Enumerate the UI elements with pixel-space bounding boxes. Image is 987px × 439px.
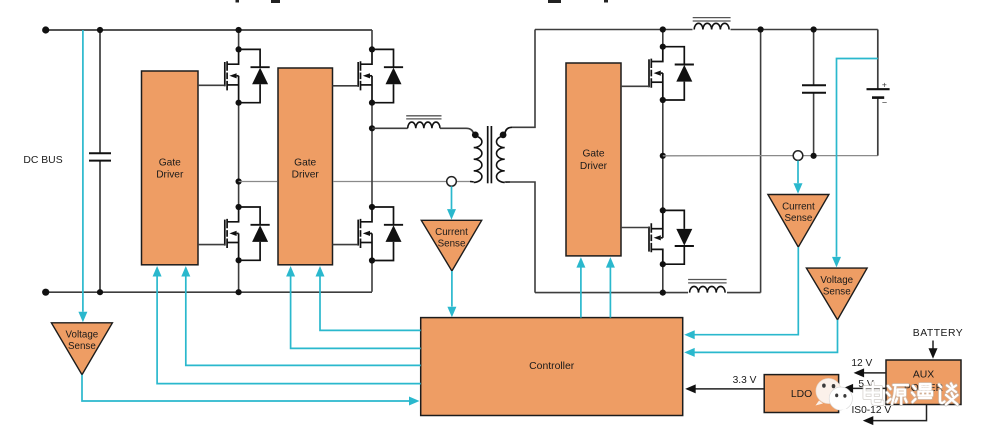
wire CT2 to CS2 (cyan) — [794, 161, 803, 194]
transistor Q3 high-side with body diode — [333, 46, 404, 105]
current sense block CS2 — [768, 195, 829, 248]
svg-text:AUX: AUX — [913, 370, 934, 381]
wire AUX ISO-12V output — [863, 405, 927, 426]
wire leg2 vertical segments — [371, 30, 373, 292]
regulator LDO box — [764, 375, 838, 413]
svg-text:LDO: LDO — [791, 389, 812, 400]
node leg1 midpoint — [236, 178, 242, 184]
wire VS2 to controller (cyan) — [684, 320, 837, 357]
svg-text:BATTERY: BATTERY — [913, 328, 963, 339]
current probe CT1 (primary) — [447, 177, 457, 187]
transformer T1 core — [488, 126, 492, 183]
svg-text:Sense: Sense — [438, 239, 466, 250]
wire output return (leg mid to battery) — [663, 155, 878, 157]
battery BT1 — [867, 30, 890, 156]
svg-text:Gate: Gate — [582, 149, 604, 160]
wire controller to U1 pwm A (cyan) — [181, 266, 420, 365]
wire CS1 to controller (cyan) — [447, 271, 456, 317]
svg-text:Driver: Driver — [580, 161, 608, 172]
svg-text:Current: Current — [782, 201, 815, 212]
label IS0-12 V — [851, 405, 891, 416]
label 5 V — [858, 379, 873, 390]
wire controller to U2 pwm B (cyan) — [286, 266, 421, 348]
transformer T1 secondary dot — [500, 132, 507, 139]
wire top rail secondary — [535, 29, 878, 31]
svg-text:IS0-12 V: IS0-12 V — [851, 405, 891, 416]
inductor L3 output bottom — [688, 280, 727, 299]
wire primary return (leg1 mid to transformer) — [239, 181, 470, 183]
svg-text:3.3 V: 3.3 V — [733, 375, 757, 386]
svg-text:Sense: Sense — [785, 213, 813, 224]
wire controller to U3 pwm B (cyan) — [606, 257, 615, 318]
wire secondary leg vertical segments — [660, 26, 666, 295]
wire AUX 12V output — [854, 368, 886, 377]
current probe CT2 (secondary) — [793, 151, 803, 161]
label BATTERY — [913, 328, 963, 339]
wire bottom rail secondary — [535, 292, 761, 294]
wire secondary top lead — [512, 30, 535, 128]
svg-text:DC BUS: DC BUS — [23, 155, 62, 166]
transistor Q5 secondary high-side with body diode — [621, 44, 694, 103]
aux power box — [886, 360, 961, 405]
transformer T1 primary dot — [472, 132, 479, 139]
current sense block CS1 — [421, 220, 481, 271]
controller U4 box — [421, 318, 683, 416]
wire leg1 vertical segments — [236, 27, 242, 295]
wire controller to U1 pwm B (cyan) — [153, 266, 421, 384]
svg-text:Sense: Sense — [68, 341, 96, 352]
inductor L1 primary series — [406, 116, 441, 129]
node DC bus + terminal — [42, 26, 49, 33]
title text remnant (clipped page title) — [236, 0, 609, 3]
svg-text:12 V: 12 V — [851, 358, 872, 369]
node DC bus - terminal — [42, 289, 49, 296]
wire L1 to transformer — [440, 128, 474, 136]
gate driver U1 box — [142, 71, 199, 265]
svg-text:Current: Current — [435, 227, 468, 238]
svg-text:Voltage: Voltage — [66, 330, 99, 341]
svg-text:Gate: Gate — [159, 158, 181, 169]
wire bottom rail primary (DC bus -) — [46, 291, 372, 293]
wire secondary bottom lead — [510, 182, 535, 293]
svg-text:−: − — [882, 98, 887, 108]
svg-text:Driver: Driver — [292, 169, 320, 180]
svg-text:Controller: Controller — [529, 361, 575, 372]
wire DC bus voltage sense tap (cyan) — [78, 30, 87, 322]
label 12 V — [851, 358, 872, 369]
watermark wechat logo and caption — [816, 378, 958, 413]
svg-text:Driver: Driver — [156, 169, 184, 180]
wire CT1 to CS1 (cyan) — [447, 186, 456, 219]
wire VS1 to controller (cyan) — [82, 375, 420, 406]
inductor L2 output top — [693, 18, 731, 35]
transistor Q2 low-side with body diode — [198, 204, 270, 264]
gate driver U3 box — [566, 63, 621, 256]
wire controller to U2 pwm A (cyan) — [316, 266, 421, 330]
wire controller to U3 pwm A (cyan) — [576, 257, 585, 318]
wire top rail primary (DC bus +) — [46, 29, 372, 31]
node leg2 midpoint — [369, 125, 375, 131]
wire battery sense (cyan) — [832, 59, 878, 268]
transistor Q6 secondary low-side with body diode — [621, 207, 694, 267]
transformer T1 primary winding — [470, 136, 482, 182]
capacitor C2 output — [802, 26, 826, 159]
node secondary leg midpoint — [660, 153, 666, 159]
svg-text:Voltage: Voltage — [820, 275, 853, 286]
capacitor C1 DC bus — [89, 27, 111, 295]
transformer T1 secondary winding — [496, 127, 512, 182]
gate driver U2 box — [278, 68, 333, 265]
label 3.3 V — [733, 375, 757, 386]
voltage sense block VS1 — [51, 323, 112, 375]
wire output node riser — [758, 26, 764, 292]
transistor Q4 low-side with body diode — [333, 204, 404, 264]
svg-text:Sense: Sense — [823, 287, 851, 298]
wire leg2 mid to L1 — [372, 127, 408, 129]
svg-text:+: + — [882, 80, 887, 90]
voltage sense block VS2 — [806, 268, 867, 320]
transistor Q1 high-side with body diode — [198, 46, 270, 105]
wire BATTERY arrow into AUX — [929, 341, 938, 359]
wire AUX 5V to LDO — [843, 384, 886, 393]
wire LDO 3.3V to controller — [685, 384, 764, 393]
node DC BUS label — [23, 155, 62, 166]
wire CS2 to controller (cyan) — [684, 247, 798, 339]
svg-text:Gate: Gate — [294, 158, 316, 169]
